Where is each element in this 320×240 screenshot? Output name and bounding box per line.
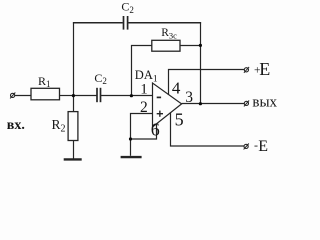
svg-text:E: E xyxy=(258,138,268,155)
node A junction xyxy=(72,94,75,97)
input terminal xyxy=(10,93,15,99)
svg-text:2: 2 xyxy=(140,99,148,116)
ground node junction xyxy=(129,137,132,140)
wire R2 to ground xyxy=(73,141,75,159)
pin 4 lead to +E xyxy=(169,70,245,95)
op-amp DA1 triangle xyxy=(153,83,182,127)
wire top rail left segment xyxy=(73,22,123,24)
wire C2 mid to node B xyxy=(101,95,132,97)
svg-text:вых: вых xyxy=(252,95,277,111)
node B junction xyxy=(130,94,133,97)
svg-text:6: 6 xyxy=(151,119,160,139)
op-amp inverting input minus sign xyxy=(157,96,161,98)
ground (under R2) xyxy=(64,158,82,160)
wire R1 to node A xyxy=(60,95,74,97)
svg-text:4: 4 xyxy=(172,79,181,98)
terminal output xyxy=(244,101,249,107)
capacitor C2 top xyxy=(124,16,128,30)
svg-text:E: E xyxy=(259,59,270,79)
terminal +E xyxy=(244,67,249,73)
R3 feedback node junction xyxy=(199,44,202,47)
label -E xyxy=(254,138,268,155)
wire node A up to top rail xyxy=(73,22,75,95)
wire feedback vertical xyxy=(200,22,202,103)
resistor R3 xyxy=(152,40,180,51)
ground (mid) xyxy=(121,156,142,158)
svg-text:5: 5 xyxy=(175,110,184,130)
label +E xyxy=(254,59,270,79)
wire ground node down (mid ground) xyxy=(130,139,132,156)
svg-text:1: 1 xyxy=(140,82,148,98)
wire node A down to R2 xyxy=(73,96,75,112)
wire node B to op-amp pin 1 xyxy=(132,95,153,97)
wire pin 6 xyxy=(131,124,157,140)
resistor R1 xyxy=(31,88,60,100)
resistor R2 xyxy=(68,112,78,141)
wire node A to C2 mid xyxy=(74,95,98,97)
terminal -E xyxy=(244,144,249,150)
capacitor C2 mid xyxy=(97,88,101,102)
wire pin 2 to ground corner xyxy=(131,114,153,140)
wire R3 to feedback node xyxy=(180,45,201,47)
svg-text:3: 3 xyxy=(185,89,193,106)
svg-text:вх.: вх. xyxy=(7,118,25,133)
op-amp non-inverting input plus sign xyxy=(157,111,163,117)
output node junction xyxy=(199,102,202,105)
wire output pin 3 xyxy=(182,103,245,105)
wire input to R1 xyxy=(15,95,31,97)
wire node B up to R3 xyxy=(132,46,152,97)
wire top rail right segment xyxy=(128,22,201,24)
pin 5 lead to -E xyxy=(171,112,244,146)
